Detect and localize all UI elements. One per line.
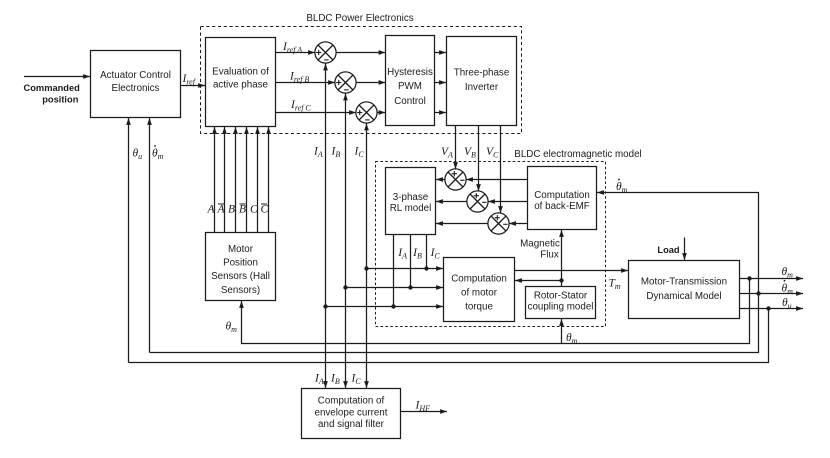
wire Iref actuator to evaluation (181, 85, 206, 87)
svg-text:Three-phase: Three-phase (454, 68, 510, 79)
wire hall sensor output B (235, 127, 237, 233)
summer E3 (488, 213, 509, 234)
summer S2 (335, 72, 356, 93)
wire E1 output into RL model (436, 179, 445, 181)
block 3-phase RL model (386, 168, 436, 235)
wire IB from RL model down (410, 235, 412, 288)
svg-text:VA: VA (441, 146, 453, 160)
svg-text:Flux: Flux (540, 250, 559, 261)
svg-text:Rotor-Stator: Rotor-Stator (534, 291, 588, 302)
svg-text:active phase: active phase (213, 80, 269, 91)
wire theta_dot_m feedback up to back-EMF (597, 193, 759, 294)
wire IC row into torque block (367, 268, 444, 270)
svg-text:Iref C: Iref C (290, 99, 311, 113)
svg-text:IA: IA (314, 373, 324, 387)
wire IrefC to summer S3 (276, 112, 357, 114)
wire theta_dot_m output (740, 293, 804, 295)
svg-text:Iref: Iref (182, 73, 197, 87)
wire theta_u feedback loop to actuator (129, 309, 769, 363)
svg-text:Actuator Control: Actuator Control (100, 70, 171, 81)
wire current bus B up to summer S2 (345, 94, 347, 288)
svg-text:envelope current: envelope current (315, 407, 388, 418)
wire IB row into torque block (346, 287, 444, 289)
svg-text:Sensors (Hall: Sensors (Hall (211, 271, 270, 282)
wire current bus B down to envelope box (345, 288, 347, 389)
plus/minus E1 (452, 171, 465, 180)
dashed container BLDC electromagnetic model (376, 162, 606, 327)
wire hysteresis to inverter row A (435, 52, 447, 54)
wire theta_u feedback into actuator (128, 118, 130, 363)
block Actuator Control Electronics (91, 51, 181, 118)
svg-text:torque: torque (465, 302, 493, 313)
svg-text:IA: IA (313, 146, 323, 160)
plus/minus E3 (495, 215, 508, 224)
wire hall sensor output C-bar (268, 127, 270, 233)
wire theta_dot_m feedback into actuator (149, 118, 151, 353)
junction theta_m output (747, 276, 751, 280)
svg-text:θm: θm (152, 148, 164, 162)
plus/minus E2 (474, 193, 487, 202)
wire Load input (684, 238, 686, 261)
wire IC from RL model down (426, 235, 428, 269)
svg-text:IA: IA (397, 247, 407, 261)
junction IA from RL (391, 304, 395, 308)
wire S2 to hysteresis (356, 82, 385, 84)
svg-text:VB: VB (464, 146, 476, 160)
svg-text:Iref B: Iref B (289, 71, 309, 85)
svg-text:IHF: IHF (415, 400, 431, 414)
summer E2 (467, 191, 488, 212)
wire back-EMF eB into E2 (488, 201, 528, 203)
svg-text:A: A (207, 204, 216, 216)
wire theta_m feedback loop to hall sensors (242, 279, 750, 344)
junction theta_u output (766, 306, 770, 310)
svg-text:RL model: RL model (390, 203, 432, 214)
svg-text:Motor-Transmission: Motor-Transmission (641, 277, 727, 288)
wire theta_dot_m feedback loop to actuator (150, 294, 759, 353)
wire hall sensor output A (214, 127, 216, 233)
svg-text:IB: IB (412, 247, 422, 261)
wire hall sensor output B-bar (246, 127, 248, 233)
svg-text:position: position (42, 95, 78, 105)
wire Tm torque to motor-transmission (515, 270, 629, 272)
block Computation of envelope current and signal filter (302, 389, 401, 439)
svg-text:θu: θu (782, 297, 792, 311)
wire back-EMF eC into E3 (509, 223, 528, 225)
svg-text:IB: IB (331, 146, 341, 160)
wire hysteresis to inverter row B (435, 82, 447, 84)
wire IrefA to summer S1 (276, 52, 316, 54)
wire current bus C up to summer S3 (366, 124, 368, 269)
wire current bus A up to summer S1 (325, 64, 327, 307)
svg-text:Hysteresis: Hysteresis (387, 67, 433, 78)
junction IC-busC (364, 266, 368, 270)
wire E2 output into RL model (436, 201, 467, 203)
wire theta_m output (740, 278, 804, 280)
plus/minus S1 (316, 50, 329, 60)
svg-text:PWM: PWM (398, 81, 422, 92)
svg-text:θm: θm (782, 266, 794, 280)
wire VB inverter to E2 (478, 126, 480, 192)
summer E1 (445, 169, 466, 190)
junction IB-busB (343, 285, 347, 289)
svg-text:Sensors): Sensors) (221, 285, 260, 296)
svg-text:Tm: Tm (609, 278, 621, 292)
svg-text:θm: θm (566, 332, 578, 346)
block Rotor-Stator coupling model (526, 287, 596, 319)
wire hall sensor output A-bar (224, 127, 226, 233)
junction magnetic flux branch (559, 278, 563, 282)
svg-text:Computation: Computation (451, 274, 507, 285)
wire hysteresis to inverter row C (435, 112, 447, 114)
junction IA-busA (323, 304, 327, 308)
svg-text:IC: IC (430, 247, 441, 261)
wire IrefB to summer S2 (276, 82, 336, 84)
svg-text:Control: Control (394, 96, 426, 107)
svg-text:Evaluation of: Evaluation of (212, 67, 269, 78)
svg-text:BLDC electromagnetic model: BLDC electromagnetic model (514, 149, 641, 160)
wire E3 output into RL model (436, 223, 488, 225)
dashed container BLDC Power Electronics (201, 27, 522, 134)
wire back-EMF eA into E1 (466, 179, 528, 181)
plus/minus S2 (336, 80, 349, 90)
block Motor-Transmission Dynamical Model (629, 261, 740, 319)
svg-text:Electronics: Electronics (112, 83, 160, 94)
svg-text:θu: θu (133, 148, 143, 162)
svg-text:of motor: of motor (461, 288, 498, 299)
wire commanded position input (24, 76, 90, 78)
wire VC inverter to E3 (500, 126, 502, 214)
svg-text:C: C (261, 204, 269, 216)
junction IB from RL (408, 285, 412, 289)
wire S1 to hysteresis (336, 52, 385, 54)
wire S3 to hysteresis (377, 112, 385, 114)
svg-text:Load: Load (657, 245, 680, 255)
plus/minus S3 (357, 110, 370, 120)
svg-text:of back-EMF: of back-EMF (534, 201, 590, 212)
svg-text:B: B (239, 204, 246, 216)
svg-text:A: A (217, 204, 226, 216)
wire current bus A down to envelope box (325, 307, 327, 389)
wire hall sensor output C (257, 127, 259, 233)
block Evaluation of active phase (206, 38, 276, 127)
svg-text:3-phase: 3-phase (393, 192, 429, 203)
svg-text:θm: θm (782, 282, 794, 296)
block Computation of motor torque (444, 258, 515, 322)
svg-text:θm: θm (616, 181, 628, 195)
svg-text:θm: θm (226, 321, 238, 335)
svg-text:Commanded: Commanded (24, 83, 81, 93)
svg-text:IC: IC (351, 373, 362, 387)
wire IA from RL model down (393, 235, 395, 307)
wire theta_m into rotor-stator coupling (561, 319, 563, 344)
svg-text:C: C (250, 204, 258, 216)
block Motor Position Sensors (Hall Sensors) (206, 233, 276, 301)
block Hysteresis PWM Control (386, 36, 435, 126)
svg-text:Dynamical Model: Dynamical Model (646, 291, 721, 302)
wire current bus C down to envelope box (366, 269, 368, 389)
wire magnetic flux into back-EMF (561, 230, 563, 287)
wire VA inverter to E1 (455, 126, 457, 170)
svg-text:B: B (228, 204, 235, 216)
wire theta_u output (740, 308, 804, 310)
svg-text:Computation: Computation (534, 190, 590, 201)
svg-text:coupling model: coupling model (528, 302, 594, 313)
junction IC from RL (424, 266, 428, 270)
summer S1 (315, 42, 336, 63)
svg-text:IB: IB (330, 373, 340, 387)
wire magnetic flux branch into torque block (515, 280, 562, 282)
svg-text:Motor: Motor (228, 244, 254, 255)
svg-text:Computation of: Computation of (318, 396, 385, 407)
svg-text:IC: IC (354, 146, 365, 160)
summer S3 (356, 102, 377, 123)
svg-text:Iref A: Iref A (282, 41, 302, 55)
wire IHF output (401, 411, 448, 413)
svg-text:BLDC Power Electronics: BLDC Power Electronics (306, 13, 413, 24)
svg-text:Inverter: Inverter (465, 82, 499, 93)
svg-text:and signal filter: and signal filter (318, 419, 385, 430)
wire IA row into torque block (326, 306, 444, 308)
svg-text:VC: VC (486, 146, 499, 160)
block Three-phase Inverter (447, 37, 517, 126)
block Computation of back-EMF (528, 167, 597, 230)
svg-text:Position: Position (223, 258, 258, 269)
junction theta_dot_m output (756, 291, 760, 295)
svg-text:Magnetic: Magnetic (520, 239, 560, 250)
